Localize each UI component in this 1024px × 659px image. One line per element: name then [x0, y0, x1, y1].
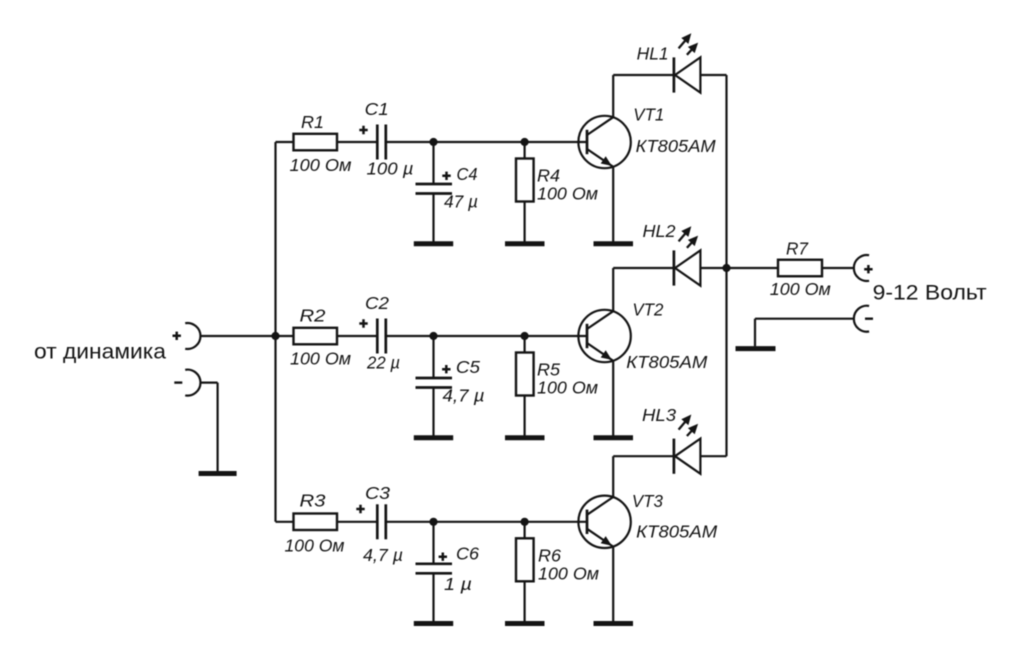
value label R7 100 Ом [770, 279, 831, 299]
svg-text:VT1: VT1 [633, 105, 664, 125]
value label R6 [538, 564, 599, 584]
resistor R1 [294, 134, 338, 151]
transistor VT2 [578, 310, 630, 362]
value label R1 100 Ом [290, 155, 352, 175]
svg-text:HL1: HL1 [637, 44, 669, 64]
svg-text:4,7 µ: 4,7 µ [443, 386, 485, 406]
wire HL2 to right bus [700, 267, 726, 269]
capacitor C3 [377, 504, 386, 539]
ground R4 [505, 241, 545, 246]
wire left bus vertical [274, 142, 276, 522]
svg-text:C3: C3 [365, 483, 390, 503]
wire VT2 collector to HL2 [612, 268, 614, 311]
capacitor C1 [377, 125, 386, 160]
wire input plus to bus [201, 335, 276, 337]
value label C2 [366, 353, 400, 373]
svg-text:4,7 µ: 4,7 µ [363, 545, 403, 565]
value label C1 [367, 159, 414, 179]
wire R4 to ground [523, 202, 525, 242]
resistor R6 [516, 538, 534, 581]
wire right bus vertical [725, 75, 727, 456]
wire C3 to VT3 base [386, 521, 587, 523]
label C5 [456, 357, 480, 377]
label C3 [365, 483, 390, 503]
capacitor C4 [416, 184, 453, 194]
svg-text:C5: C5 [456, 357, 480, 377]
capacitor C6 [416, 564, 453, 574]
wire VT1 collector to HL1 [612, 75, 614, 117]
svg-text:100 Ом: 100 Ом [285, 535, 345, 555]
wire to LED HL3 [613, 455, 674, 457]
wire node to R6 [523, 522, 525, 539]
svg-text:100 Ом: 100 Ом [538, 564, 599, 584]
svg-text:VT2: VT2 [632, 300, 663, 320]
value label R4 [537, 184, 598, 204]
capacitor C2 [377, 319, 386, 354]
value label R5 [537, 378, 598, 398]
wire HL1 to right bus [700, 74, 726, 76]
svg-text:R2: R2 [300, 305, 326, 325]
svg-text:47 µ: 47 µ [444, 191, 478, 211]
wire VT3 emitter to ground [612, 547, 614, 622]
wire node to R4 [523, 142, 525, 159]
node right bus junction [722, 264, 730, 272]
node junction shunt cap C4 [429, 138, 437, 146]
svg-text:C6: C6 [456, 544, 479, 564]
input terminal minus [174, 370, 200, 396]
svg-text:C2: C2 [365, 293, 389, 313]
wire node to R5 [523, 336, 525, 353]
wire node to C4 [432, 142, 434, 184]
svg-text:R3: R3 [300, 491, 326, 511]
label R2 [300, 305, 326, 325]
value label C4 [444, 191, 478, 211]
svg-text:100 µ: 100 µ [367, 159, 414, 179]
LED HL1 [674, 33, 701, 92]
svg-text:КТ805АМ: КТ805АМ [636, 136, 716, 156]
label R6 [538, 546, 561, 566]
resistor R5 [516, 353, 534, 396]
ground VT3 emitter [594, 621, 634, 626]
label R5 [537, 360, 560, 380]
transistor VT1 [578, 116, 630, 168]
node input bus junction [271, 332, 279, 340]
svg-text:100 Ом: 100 Ом [290, 348, 351, 368]
value label R2 100 Ом [290, 348, 351, 368]
svg-text:HL3: HL3 [642, 405, 676, 425]
label 9-12 Вольт [873, 281, 987, 305]
wire R7 to plus terminal [822, 267, 854, 269]
ground C6 [414, 621, 453, 626]
svg-text:1 µ: 1 µ [444, 574, 472, 594]
power terminal plus [854, 255, 873, 281]
C3 polarity plus [356, 505, 364, 513]
label R7 [786, 238, 809, 258]
wire node to C5 [432, 336, 434, 378]
wire C4 to ground [432, 194, 434, 242]
LED HL3 [674, 415, 701, 474]
ground C4 [414, 241, 453, 246]
ground R5 [505, 435, 545, 440]
LED HL2 [674, 226, 701, 285]
label: от динамика [34, 340, 166, 364]
label R3 [300, 491, 326, 511]
node junction shunt cap C6 [429, 518, 437, 526]
wire bus to R1 [276, 141, 294, 143]
svg-text:R5: R5 [537, 360, 560, 380]
resistor R2 [294, 328, 338, 345]
node junction resistor R5 [521, 332, 529, 340]
wire to LED HL2 [613, 267, 674, 269]
wire minus terminal horizontal [755, 318, 854, 320]
resistor R7 [778, 260, 822, 277]
wire C2 to VT2 base [386, 335, 587, 337]
label C4 [457, 164, 478, 184]
node junction resistor R6 [521, 518, 529, 526]
svg-text:КТ805АМ: КТ805АМ [636, 521, 717, 541]
wire input minus horizontal [201, 382, 218, 384]
svg-text:C1: C1 [365, 99, 389, 119]
resistor R3 [294, 514, 338, 531]
node junction resistor R4 [521, 138, 529, 146]
wire C1 to VT1 base [386, 141, 587, 143]
C1 polarity plus [359, 126, 367, 134]
label C2 [365, 293, 389, 313]
svg-text:HL2: HL2 [643, 221, 676, 241]
label R1 [301, 112, 324, 132]
svg-text:100 Ом: 100 Ом [537, 184, 598, 204]
wire input minus vertical [217, 383, 219, 472]
label VT3 [632, 491, 663, 511]
value label C5 [443, 386, 485, 406]
label R4 [537, 166, 560, 186]
transistor VT3 [578, 496, 630, 548]
svg-text:22 µ: 22 µ [366, 353, 400, 373]
ground VT2 emitter [594, 435, 634, 440]
svg-text:C4: C4 [457, 164, 478, 184]
wire R6 to ground [523, 581, 525, 621]
svg-text:100 Ом: 100 Ом [290, 155, 352, 175]
C4 polarity plus [442, 172, 450, 180]
value label C6 [444, 574, 472, 594]
svg-text:VT3: VT3 [632, 491, 663, 511]
wire VT3 collector to HL3 [612, 456, 614, 497]
ground C5 [414, 435, 453, 440]
wire to LED HL1 [613, 74, 674, 76]
ground VT1 emitter [594, 241, 634, 246]
svg-text:КТ805АМ: КТ805АМ [626, 352, 707, 372]
wire C6 to ground [432, 573, 434, 621]
label HL2 [643, 221, 676, 241]
capacitor C5 [416, 378, 453, 388]
svg-text:R6: R6 [538, 546, 561, 566]
value label КТ805АМ (VT3) [636, 521, 717, 541]
wire bus to R2 [276, 335, 294, 337]
C6 polarity plus [439, 553, 447, 561]
input terminal plus [173, 323, 201, 349]
wire R5 to ground [523, 396, 525, 436]
wire R2 to C2 [337, 335, 377, 337]
label HL3 [642, 405, 676, 425]
wire bus to R7 [727, 267, 779, 269]
ground input [199, 471, 237, 476]
wire VT1 emitter to ground [612, 167, 614, 242]
svg-text:9-12 Вольт: 9-12 Вольт [873, 281, 987, 305]
value label R3 100 Ом [285, 535, 345, 555]
svg-text:от динамика: от динамика [34, 340, 166, 364]
svg-text:R7: R7 [786, 238, 809, 258]
label HL1 [637, 44, 669, 64]
label C1 [365, 99, 389, 119]
C2 polarity plus [359, 319, 367, 327]
wire C5 to ground [432, 388, 434, 436]
wire bus to R3 [276, 521, 294, 523]
wire HL3 to right bus [700, 455, 726, 457]
power terminal minus [854, 306, 873, 332]
C5 polarity plus [442, 365, 450, 373]
svg-text:100 Ом: 100 Ом [770, 279, 831, 299]
svg-text:R1: R1 [301, 112, 324, 132]
resistor R4 [516, 159, 534, 202]
wire node to C6 [432, 522, 434, 564]
label VT1 [633, 105, 664, 125]
wire VT2 emitter to ground [612, 361, 614, 436]
svg-text:100 Ом: 100 Ом [537, 378, 598, 398]
ground R6 [505, 621, 545, 626]
value label C3 [363, 545, 403, 565]
node junction shunt cap C5 [429, 332, 437, 340]
ground power minus [736, 346, 776, 351]
value label КТ805АМ (VT2) [626, 352, 707, 372]
label C6 [456, 544, 479, 564]
wire R3 to C3 [337, 521, 377, 523]
value label КТ805АМ (VT1) [636, 136, 716, 156]
label VT2 [632, 300, 663, 320]
wire R1 to C1 [337, 141, 377, 143]
svg-text:R4: R4 [537, 166, 560, 186]
wire minus terminal vertical [754, 319, 756, 347]
